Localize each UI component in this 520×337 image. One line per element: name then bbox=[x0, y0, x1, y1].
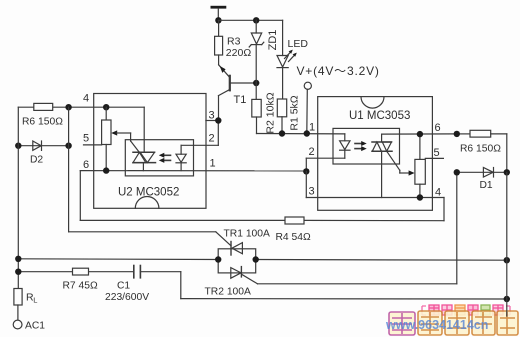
svg-text:TR2 100A: TR2 100A bbox=[205, 287, 251, 298]
label R7 45Ω bbox=[63, 281, 98, 292]
wire R4 line bbox=[80, 219, 444, 221]
IR LED U2 bbox=[176, 145, 186, 170]
resistor R1 bbox=[277, 99, 286, 134]
wire right column bbox=[506, 172, 508, 316]
node T1 base bbox=[253, 80, 259, 86]
svg-text:R6 150Ω: R6 150Ω bbox=[22, 117, 63, 128]
label C1 bbox=[117, 281, 130, 292]
node line D right bbox=[504, 296, 510, 302]
svg-text:6: 6 bbox=[83, 159, 89, 171]
svg-text:1: 1 bbox=[309, 122, 315, 134]
IR LED U1 bbox=[340, 134, 350, 158]
node U1 pin2/pin3 junction bbox=[303, 168, 309, 174]
wire U2 bottom rail (pin6 / pin1) bbox=[80, 170, 306, 172]
power supply bar bbox=[211, 6, 227, 20]
potentiometer U1 bbox=[415, 134, 425, 197]
label U2 MC3052 bbox=[118, 187, 179, 199]
svg-text:6: 6 bbox=[435, 122, 441, 134]
svg-text:223/600V: 223/600V bbox=[105, 292, 149, 303]
svg-text:AC1: AC1 bbox=[25, 321, 45, 332]
resistor R7 bbox=[73, 268, 89, 275]
svg-text:LED: LED bbox=[288, 38, 309, 50]
U1 pin labels bbox=[309, 122, 442, 199]
svg-text:3: 3 bbox=[209, 110, 215, 122]
label AC1 bbox=[25, 321, 45, 332]
node top rail at ZD1 bbox=[253, 17, 259, 23]
node D2 right bbox=[65, 143, 71, 149]
svg-text:4: 4 bbox=[435, 187, 441, 199]
node V+ drop bbox=[304, 130, 310, 136]
svg-text:R6 150Ω: R6 150Ω bbox=[460, 144, 501, 155]
svg-text:R1 5kΩ: R1 5kΩ bbox=[289, 95, 301, 130]
wire U1 pin6 line bbox=[382, 133, 457, 135]
svg-text:1: 1 bbox=[210, 158, 216, 170]
svg-text:4: 4 bbox=[83, 93, 89, 105]
svg-text:5: 5 bbox=[83, 133, 89, 145]
resistor R6 left bbox=[34, 103, 53, 110]
U2 pin5 stub bbox=[84, 144, 102, 146]
svg-text:V+(4V〜3.2V): V+(4V〜3.2V) bbox=[297, 64, 380, 78]
U2 gate arrow to pot bbox=[111, 130, 139, 152]
svg-text:C1: C1 bbox=[117, 281, 130, 292]
opto-coupler U1 box bbox=[318, 97, 433, 211]
light arrows U1 bbox=[355, 141, 367, 151]
node U1 pot bottom bbox=[417, 194, 423, 200]
transistor T1 bbox=[219, 65, 257, 121]
wire U1 pin4 drop bbox=[443, 198, 445, 221]
wire line A right bbox=[256, 259, 507, 262]
label 223/600V bbox=[105, 292, 149, 303]
node triac loop left bbox=[215, 256, 221, 262]
svg-text:R4 54Ω: R4 54Ω bbox=[276, 232, 311, 243]
node top-left junction bbox=[215, 17, 221, 23]
node line A right column bbox=[504, 257, 510, 263]
resistor R3 bbox=[215, 20, 223, 65]
LED bbox=[277, 20, 297, 99]
node D1 left bbox=[454, 169, 460, 175]
wire U2 pin6 drop to R4 line bbox=[79, 171, 81, 221]
photo-triac U1 bbox=[372, 134, 392, 197]
triac TR2 bbox=[231, 267, 258, 284]
wire U1 pin3 route bbox=[306, 171, 444, 197]
wire left column bbox=[17, 107, 19, 288]
label T1 bbox=[234, 94, 247, 106]
node pin6/R6 right bbox=[454, 131, 460, 137]
svg-text:www.96341414cn: www.96341414cn bbox=[385, 318, 488, 332]
label LED bbox=[288, 38, 309, 50]
wire TR2 gate line bbox=[258, 172, 457, 283]
resistor R6 right bbox=[470, 130, 507, 172]
node D2 left bbox=[15, 143, 21, 149]
U1 gate arrow to pot bbox=[387, 151, 415, 175]
label RL bbox=[26, 292, 37, 305]
node line A left column bbox=[15, 256, 21, 262]
svg-text:5: 5 bbox=[434, 147, 440, 159]
svg-text:3: 3 bbox=[309, 186, 315, 198]
wire U1 pin1 line bbox=[257, 133, 345, 135]
wire U1 pin2 bbox=[306, 158, 345, 171]
svg-text:L: L bbox=[33, 296, 37, 305]
wire U2 pin4 line bbox=[18, 107, 144, 152]
label D1 bbox=[480, 180, 493, 191]
node U1 pot top bbox=[417, 131, 423, 137]
svg-text:D1: D1 bbox=[480, 180, 493, 191]
node R6 right bbox=[65, 104, 71, 110]
diode D1 bbox=[457, 168, 507, 178]
label R3 220Ω bbox=[226, 36, 252, 60]
label R4 54Ω bbox=[276, 232, 311, 243]
triac loop box bbox=[218, 249, 256, 273]
node R1 bottom bbox=[279, 130, 285, 136]
opto-coupler U2 box bbox=[94, 94, 206, 209]
svg-text:2: 2 bbox=[209, 133, 215, 145]
U1 inner rect bbox=[333, 128, 400, 164]
resistor R2 bbox=[252, 99, 261, 133]
label R6 150Ω right bbox=[460, 144, 501, 155]
svg-text:ZD1: ZD1 bbox=[267, 30, 279, 51]
label R1 5kΩ bbox=[289, 95, 301, 130]
wire line A left bbox=[18, 258, 218, 261]
terminal V+ bbox=[304, 82, 311, 133]
label V+(4V~3.2V) bbox=[297, 64, 380, 78]
node line B left column bbox=[15, 269, 21, 275]
svg-text:R3: R3 bbox=[227, 36, 241, 48]
resistor R4 bbox=[285, 217, 304, 224]
label TR1 100A bbox=[224, 229, 270, 240]
wire U2 pin2 bbox=[181, 121, 218, 146]
terminal AC1 bbox=[13, 320, 22, 329]
svg-text:R2 10kΩ: R2 10kΩ bbox=[265, 92, 277, 133]
U2 pin labels bbox=[83, 93, 216, 172]
watermark bbox=[385, 305, 518, 335]
svg-text:T1: T1 bbox=[234, 94, 247, 106]
diode D2 bbox=[18, 141, 68, 150]
triac TR1 bbox=[231, 242, 242, 256]
label ZD1 bbox=[267, 30, 279, 51]
photo-triac U2 bbox=[133, 152, 156, 170]
label U1 MC3053 bbox=[349, 110, 410, 122]
wire top rail bbox=[218, 19, 282, 21]
capacitor C1 bbox=[134, 266, 141, 278]
label R6 150Ω left bbox=[22, 117, 63, 128]
wire R6/D2 column to TR1 gate bbox=[69, 107, 231, 246]
wire U1 pin6 to R6 right bbox=[457, 133, 470, 135]
label R2 10kΩ bbox=[265, 92, 277, 133]
U1 pin5 stub bbox=[425, 157, 443, 159]
zener diode ZD1 bbox=[249, 20, 264, 99]
label D2 bbox=[30, 155, 43, 166]
U2 inner rect bbox=[125, 140, 193, 176]
wire U2 pin3 stub bbox=[206, 120, 218, 122]
node U2 pot bottom bbox=[103, 167, 109, 173]
potentiometer U2 bbox=[102, 107, 111, 170]
light arrows U2 bbox=[159, 153, 171, 163]
svg-text:220Ω: 220Ω bbox=[226, 47, 252, 59]
node D1 right bbox=[504, 169, 510, 175]
svg-text:D2: D2 bbox=[30, 155, 43, 166]
svg-text:U1 MC3053: U1 MC3053 bbox=[349, 110, 410, 122]
svg-text:R7 45Ω: R7 45Ω bbox=[63, 281, 98, 292]
node U2 pot top bbox=[103, 104, 109, 110]
svg-text:2: 2 bbox=[309, 146, 315, 158]
resistor RL bbox=[14, 289, 22, 320]
node triac loop right bbox=[253, 256, 259, 262]
svg-text:TR1 100A: TR1 100A bbox=[224, 229, 270, 240]
svg-text:U2 MC3052: U2 MC3052 bbox=[118, 187, 179, 199]
label TR2 100A bbox=[205, 287, 251, 298]
node U2 pin3 junction bbox=[215, 117, 221, 123]
wire line B (snubber) bbox=[18, 272, 507, 299]
